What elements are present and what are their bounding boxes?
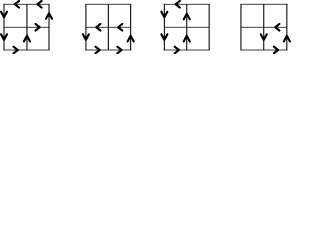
box2 center vertical wire — [107, 4, 109, 50]
box4 bottom edge wire — [240, 49, 287, 51]
arrow box3 mid-vertical upper pointing up — [184, 14, 190, 20]
box2 bottom edge wire — [85, 49, 131, 51]
arrow box1 top-left pointing left — [15, 1, 19, 8]
box1 center vertical wire — [26, 4, 28, 50]
box3 bottom edge wire — [164, 49, 210, 51]
arrow box2 bottom-left pointing right — [96, 47, 100, 54]
box2 left edge wire — [85, 4, 87, 51]
background — [0, 0, 291, 54]
arrow box1 left-lower pointing down — [1, 34, 7, 40]
box1 mid horizontal wire — [4, 26, 49, 28]
arrow box2 mid-horizontal left half pointing left — [96, 24, 100, 31]
box4 center vertical wire — [263, 4, 265, 50]
arrow box4 bottom-right pointing right — [274, 47, 278, 54]
arrow box3 mid-vertical lower pointing up — [184, 36, 190, 42]
box4 right edge wire — [286, 4, 288, 51]
arrow box3 left-upper pointing down — [161, 12, 167, 18]
box3 center vertical wire — [186, 4, 188, 50]
box2 mid horizontal wire — [86, 26, 131, 28]
box1 bottom edge wire — [4, 49, 50, 51]
arrow box1 mid-vertical pointing up — [24, 36, 30, 42]
box2 top edge wire — [85, 3, 131, 5]
arrow box2 left-lower pointing down — [83, 34, 89, 40]
arrow box2 right-lower pointing up — [128, 36, 134, 42]
arrow box3 left-lower pointing down — [161, 34, 167, 40]
arrow box1 bottom-left pointing right — [14, 47, 18, 54]
box1 right edge wire — [48, 4, 50, 51]
arrow box1 left-upper pointing down — [1, 12, 7, 18]
box4 top edge wire — [240, 3, 287, 5]
box3 mid horizontal wire — [164, 26, 209, 28]
box3 left edge wire — [163, 4, 165, 51]
box4 mid horizontal wire — [241, 26, 287, 28]
arrow box4 right-lower pointing up — [284, 36, 290, 42]
arrow box1 top-right pointing left — [37, 1, 41, 8]
box2 right edge wire — [130, 4, 132, 51]
arrow box4 mid-vertical pointing down — [261, 34, 267, 40]
arrow box2 bottom-right pointing right — [117, 47, 121, 54]
arrow box3 top-left pointing left — [176, 1, 180, 8]
arrow box1 mid-horizontal pointing right — [36, 24, 40, 31]
arrow box1 right-upper pointing up — [46, 13, 52, 19]
box1 left edge wire — [3, 4, 5, 51]
arrow box2 mid-horizontal right half pointing left — [118, 24, 122, 31]
box4 left edge wire — [240, 4, 242, 51]
box3 right edge wire — [208, 4, 210, 51]
box1 top edge wire — [4, 3, 50, 5]
arrow box4 mid-horizontal pointing left — [275, 24, 279, 31]
arrow box3 bottom-left pointing right — [175, 47, 179, 54]
box3 top edge wire — [164, 3, 210, 5]
